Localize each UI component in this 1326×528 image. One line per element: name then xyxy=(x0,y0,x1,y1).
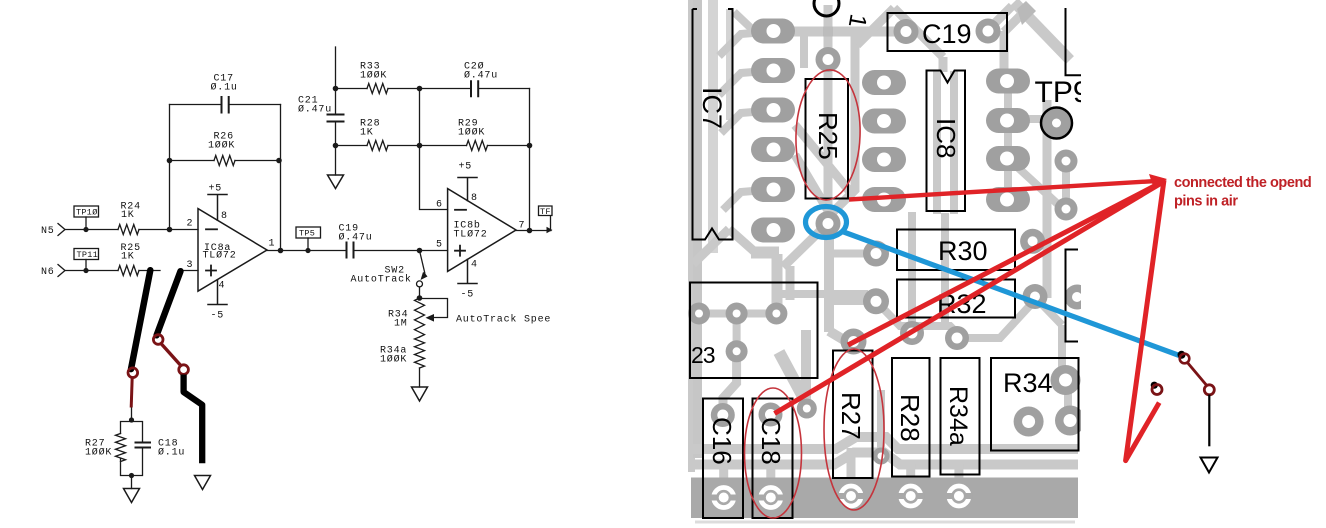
test point TP6 box clipped xyxy=(539,206,553,231)
wire C20 left lead xyxy=(420,88,472,90)
svg-text:pins in air: pins in air xyxy=(1174,194,1238,210)
hand-drawn thick wire A from R25 node xyxy=(131,270,150,369)
pcb round pads xyxy=(816,47,841,72)
annotation red line L1 to R25 pad xyxy=(849,181,1164,200)
wire R29 right lead xyxy=(488,145,530,147)
svg-text:N5: N5 xyxy=(41,226,55,237)
PCB component C16 outline xyxy=(703,399,743,519)
annotation red ellipse around C18 xyxy=(745,388,802,518)
hand-drawn black dot left of F xyxy=(1151,382,1158,389)
pcb trace col4 row stub xyxy=(1028,115,1047,123)
wire C21 top vertical xyxy=(335,47,337,115)
ground G3 below R27 C18 xyxy=(124,489,140,503)
ground G4 below hand wire xyxy=(195,476,211,490)
resistor R34a vertical xyxy=(415,337,425,368)
wire C17 left lead xyxy=(170,104,222,106)
resistor R28 xyxy=(367,141,388,151)
pcb trace verticals through R30 R32 xyxy=(912,212,945,333)
node N5 chevron xyxy=(58,224,65,236)
pcb trace col4 to right pad diagonal xyxy=(1008,159,1066,210)
hand-drawn pin circle right D xyxy=(1180,354,1190,364)
wire R25 east stub xyxy=(139,270,160,272)
power +5 bar op-amp2 pin8 xyxy=(458,178,477,201)
bar pad holes xyxy=(719,493,729,503)
wire feedback2 right vertical xyxy=(529,89,531,231)
svg-text:1ØØK: 1ØØK xyxy=(380,354,407,366)
ground G2 below R34a xyxy=(412,387,428,401)
hand-drawn black dot at blue line end xyxy=(1178,351,1186,359)
switch SW2 contact circle xyxy=(417,281,423,287)
wire op-amp1 output xyxy=(267,250,347,252)
op-amp IC8a minus sign xyxy=(206,228,217,230)
svg-text:6: 6 xyxy=(436,200,443,211)
hand-drawn wire E to ground G5 xyxy=(1208,395,1210,447)
svg-text:TF: TF xyxy=(540,207,551,217)
resistor R34 vertical xyxy=(415,298,425,337)
svg-text:IC8: IC8 xyxy=(931,118,961,158)
pad holes xyxy=(767,24,781,38)
node N6 chevron xyxy=(58,265,65,277)
wire R34a to ground xyxy=(419,368,421,387)
capacitor C19 xyxy=(347,243,354,258)
pcb trace R34 pads vertical xyxy=(1064,382,1072,420)
power -5 bar op-amp2 pin4 xyxy=(458,259,477,283)
PCB testpoint TP9 ring xyxy=(1041,108,1072,139)
svg-text:R34a: R34a xyxy=(944,386,972,446)
hand-drawn thick wire C to ground G4 xyxy=(184,375,203,464)
pcb trace branch to IC7 row2 xyxy=(800,31,808,68)
wire R28 left lead xyxy=(336,145,368,147)
svg-text:1K: 1K xyxy=(360,128,374,139)
pcb trace below R32 network xyxy=(876,300,1035,338)
PCB component IC7 outline xyxy=(693,9,733,240)
pcb trace left edge vertical xyxy=(688,0,695,472)
hand-drawn wire circleB to circleC xyxy=(161,343,181,366)
annotation red line L2 to R27 pad xyxy=(848,181,1164,345)
svg-text:5: 5 xyxy=(436,240,443,251)
PCB component R34 outline xyxy=(991,358,1079,451)
pcb trace row to C19 pad xyxy=(793,27,903,37)
resistor R24 xyxy=(118,225,139,235)
pcb trace diagonals behind R25 xyxy=(795,125,851,193)
pcb trace diagonal C23 to pad xyxy=(779,352,807,404)
op-amp IC8b minus sign xyxy=(455,209,466,211)
PCB component C23 outline xyxy=(690,283,818,379)
pcb trace short vertical right xyxy=(786,266,795,300)
capacitor C21 xyxy=(328,115,344,122)
svg-text:N6: N6 xyxy=(41,267,55,278)
svg-text:8: 8 xyxy=(471,193,478,204)
resistor R27 vertical xyxy=(116,434,126,462)
wire R27C18 bottom stub xyxy=(131,476,133,489)
wire R27C18 top stub xyxy=(131,407,133,421)
capacitor C17 xyxy=(222,97,229,113)
test point TP10 box xyxy=(74,206,99,217)
pcb bottom gray bar xyxy=(691,478,1078,519)
svg-text:Ø.47u: Ø.47u xyxy=(339,232,373,244)
svg-text:Ø.47u: Ø.47u xyxy=(464,70,498,82)
PCB component IC8 outline xyxy=(927,71,966,212)
pcb trace stubs to bar pads xyxy=(724,448,959,497)
svg-text:connected the opend: connected the opend xyxy=(1174,175,1311,191)
op-amp2 output arrowhead xyxy=(547,227,553,233)
svg-text:IC7: IC7 xyxy=(697,87,727,129)
svg-text:-5: -5 xyxy=(211,311,225,322)
annotation red V line xyxy=(1126,180,1164,461)
bar thermal ring pads xyxy=(714,488,734,508)
wire R28 right lead xyxy=(388,145,420,147)
pcb trace diag above IC8 xyxy=(857,8,943,72)
pcb trace under IC7 vertical 2 xyxy=(708,0,718,253)
wire N5 input to R24 xyxy=(65,229,118,231)
op-amp U1 IC8a triangle xyxy=(198,209,267,292)
wire R33 left lead xyxy=(336,88,368,90)
switch SW2 lever xyxy=(420,251,425,274)
svg-text:+5: +5 xyxy=(209,184,223,195)
PCB component R30 outline xyxy=(897,230,1015,271)
svg-text:Ø.1u: Ø.1u xyxy=(211,82,238,94)
hand-drawn pin circle right F xyxy=(1152,385,1162,395)
power -5 bar op-amp1 pin4 xyxy=(208,280,227,305)
pcb pads IC8 right column obround xyxy=(986,69,1030,94)
PCB pin1 marker circle xyxy=(814,0,839,16)
svg-text:-5: -5 xyxy=(461,290,475,301)
wire R26 right lead xyxy=(235,160,281,162)
pcb trace stub pad3 xyxy=(829,297,868,305)
annotation red line L3 to C18 pad xyxy=(775,182,1165,414)
pcb trace vertical at R25 column xyxy=(824,5,833,223)
svg-text:Ø.47u: Ø.47u xyxy=(298,104,332,116)
svg-text:1M: 1M xyxy=(394,319,408,330)
pcb bottom faint strip xyxy=(695,521,1075,524)
thermal spokes xyxy=(710,495,717,501)
pcb trace bottom horizontal lower xyxy=(691,453,1078,465)
svg-text:R34: R34 xyxy=(1003,368,1053,398)
R34 wiper arrow wire xyxy=(420,299,448,318)
pcb trace IC7 end diagonals xyxy=(693,229,756,264)
annotation red ellipse around R25 xyxy=(794,69,862,201)
PCB component C18 outline xyxy=(753,399,793,519)
capacitor C18 xyxy=(136,443,151,448)
pcb trace vertical right of R25 xyxy=(830,36,855,215)
svg-text:C18: C18 xyxy=(756,417,786,465)
wire R29 left lead xyxy=(420,145,467,147)
svg-text:AutoTrack: AutoTrack xyxy=(351,274,412,286)
capacitor C20 xyxy=(471,81,478,96)
svg-text:TLØ72: TLØ72 xyxy=(454,229,488,241)
pcb trace horizontal mid xyxy=(779,290,868,298)
svg-text:TP5: TP5 xyxy=(299,229,315,239)
pcb trace verticals inside IC8 xyxy=(937,71,954,214)
pcb trace diag from blue pad to C23 xyxy=(783,229,822,267)
svg-text:R28: R28 xyxy=(895,394,925,442)
PCB component R25 outline xyxy=(806,79,849,199)
pcb trace C23 pads row xyxy=(694,310,776,318)
R27 C18 parallel network frame xyxy=(121,422,143,476)
annotation red ellipse around R27 xyxy=(824,349,884,510)
pcb trace bottom horizontal upper xyxy=(691,437,1078,449)
svg-text:C19: C19 xyxy=(922,19,972,49)
pcb pads IC8 left column obround xyxy=(862,70,906,95)
wire SW2 to R34 xyxy=(419,287,421,298)
PCB component box top right xyxy=(1066,8,1082,75)
svg-text:R27: R27 xyxy=(836,392,866,440)
wire C19 to op-amp2 pin5 xyxy=(354,250,448,252)
svg-text:3: 3 xyxy=(187,260,194,271)
PCB component R27 outline xyxy=(833,351,873,479)
svg-text:+5: +5 xyxy=(459,162,473,173)
wire R24 to op-amp pin2 xyxy=(139,229,198,231)
pcb trace top right diagonals xyxy=(1014,2,1070,60)
svg-text:AutoTrack Spee: AutoTrack Spee xyxy=(456,314,551,326)
junction dots schematic xyxy=(83,227,88,232)
power +5 bar op-amp1 pin8 xyxy=(208,195,227,221)
PCB component R34a outline xyxy=(941,358,980,475)
annotation blue circle on pad xyxy=(806,207,847,238)
resistor R25 xyxy=(118,266,139,276)
test point TP11 box xyxy=(74,249,99,260)
op-amp IC8b plus sign xyxy=(455,246,465,256)
pcb trace wide band to C23 xyxy=(751,247,779,259)
PCB component C19 outline xyxy=(888,13,1008,51)
wire feedback left vertical xyxy=(169,105,171,230)
svg-text:TP1Ø: TP1Ø xyxy=(76,208,98,218)
ground G1 below C21 xyxy=(328,175,344,189)
resistor R29 xyxy=(467,141,488,151)
wire R26 left lead xyxy=(170,160,215,162)
trace overlap darker patches xyxy=(823,27,833,37)
svg-text:1K: 1K xyxy=(121,210,135,221)
annotation blue line to right xyxy=(841,231,1182,357)
pcb trace C23 pad down to C16 xyxy=(723,351,737,415)
hand-drawn wire D to E xyxy=(1187,362,1207,385)
PCB component R32 outline xyxy=(897,280,1015,318)
svg-text:1ØØK: 1ØØK xyxy=(85,447,112,459)
svg-text:1: 1 xyxy=(269,239,276,250)
wire N6 input to R25 xyxy=(65,270,118,272)
PCB component R28 outline xyxy=(892,358,930,477)
hand-drawn pin circle right E xyxy=(1204,385,1214,395)
wire R33 right lead xyxy=(388,88,420,90)
pcb trace mid vertical below blue pad xyxy=(829,225,849,343)
resistor R26 xyxy=(214,156,235,166)
hand-drawn wire circleA to R27C18 xyxy=(131,377,132,407)
pcb trace IC7 pad stubs xyxy=(719,12,754,210)
svg-text:2: 2 xyxy=(187,219,194,230)
svg-text:8: 8 xyxy=(221,211,228,222)
ground G5 right xyxy=(1201,458,1218,473)
hand-drawn open pin circle B xyxy=(153,335,163,345)
pcb pads IC7 column obround xyxy=(751,19,795,44)
PCB component box right edge xyxy=(1066,250,1079,342)
svg-text:Ø.1u: Ø.1u xyxy=(158,447,185,459)
wire C17 right lead xyxy=(229,104,281,106)
wire op-amp2 output xyxy=(516,230,551,232)
annotation red arrowhead xyxy=(1149,174,1167,189)
hand-drawn open pin circle A xyxy=(128,368,138,378)
switch SW2 arrowhead xyxy=(421,272,428,280)
svg-text:TP11: TP11 xyxy=(77,250,99,260)
wire C20 right lead xyxy=(478,88,529,90)
svg-text:R25: R25 xyxy=(813,112,843,160)
wire TP11 stub xyxy=(85,260,87,271)
op-amp U2 IC8b triangle xyxy=(448,189,516,272)
svg-text:23: 23 xyxy=(691,342,715,368)
hand-drawn open pin circle C xyxy=(179,365,189,375)
svg-text:1ØØK: 1ØØK xyxy=(208,140,235,152)
svg-text:1ØØK: 1ØØK xyxy=(360,70,387,82)
svg-text:1ØØK: 1ØØK xyxy=(458,127,485,139)
svg-text:7: 7 xyxy=(519,221,526,232)
pcb trace under IC7 vertical 3 xyxy=(726,9,732,120)
svg-text:TLØ72: TLØ72 xyxy=(203,250,237,262)
hand-drawn thick wire B from pin3 xyxy=(157,271,181,335)
R34 wiper arrowhead xyxy=(426,314,435,322)
pcb trace under IC7 vertical dark xyxy=(693,0,702,458)
svg-text:C16: C16 xyxy=(707,417,737,465)
pcb trace TP9 stub xyxy=(1046,125,1056,137)
wire feedback right vertical xyxy=(280,105,282,251)
wire mid vertical to pin6 xyxy=(420,89,448,210)
svg-text:4: 4 xyxy=(219,281,226,292)
svg-text:1K: 1K xyxy=(121,252,135,263)
pcb trace right vertical xyxy=(1043,100,1052,298)
pcb pads R34 donuts xyxy=(1051,365,1081,395)
pcb trace stub pad2 xyxy=(829,250,866,258)
wire op-amp pin3 stub xyxy=(183,270,198,272)
wire TP10 stub xyxy=(85,217,87,230)
pcb trace to R34 area xyxy=(1035,297,1062,374)
test point TP5 box xyxy=(296,227,321,238)
pcb pads C23 xyxy=(688,303,710,325)
wire TP5 stub xyxy=(307,238,309,250)
pcb trace col4 vertical xyxy=(1004,84,1012,199)
resistor R33 xyxy=(367,84,388,94)
pcb trace vertical between R27 R28 xyxy=(877,390,885,456)
svg-text:4: 4 xyxy=(471,260,478,271)
svg-text:R30: R30 xyxy=(938,236,988,266)
wire C21 bottom to ground xyxy=(335,122,337,176)
op-amp IC8a plus sign xyxy=(206,266,216,276)
